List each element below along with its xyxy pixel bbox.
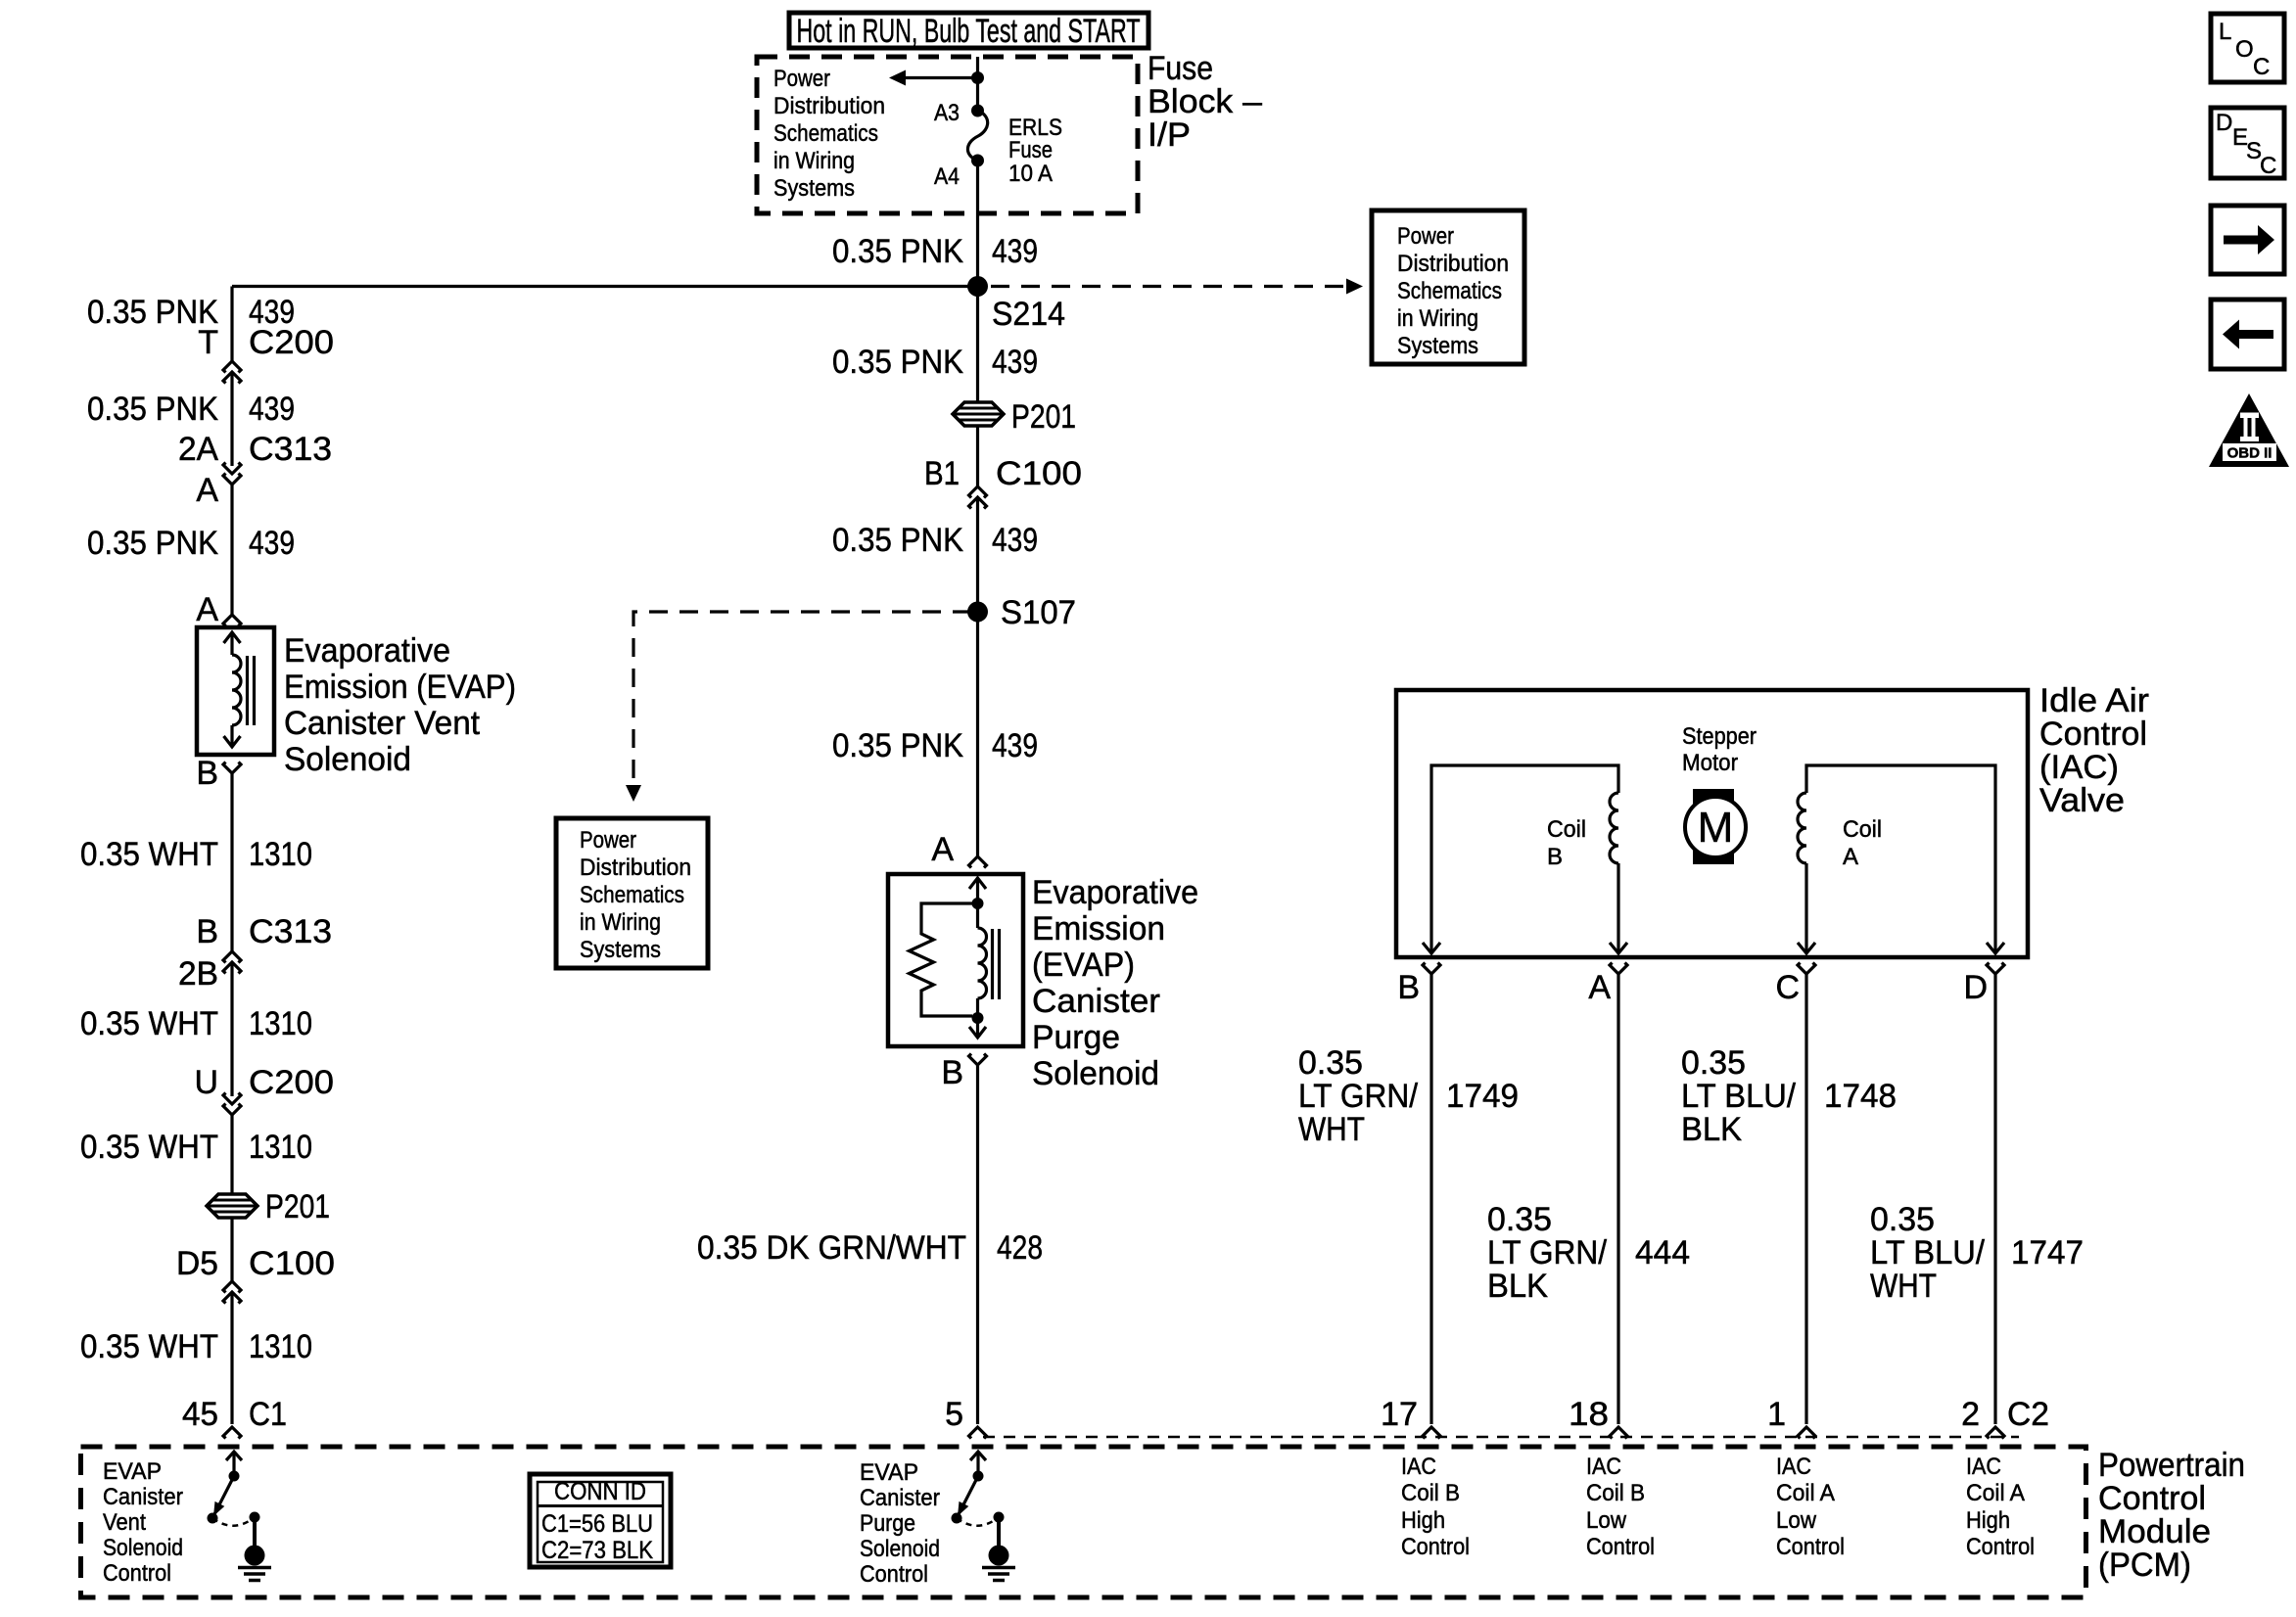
wire 1310 C100 to PCM pin 45 <box>230 1292 233 1424</box>
svg-text:P201: P201 <box>265 1188 330 1225</box>
svg-text:LT BLU/: LT BLU/ <box>1870 1234 1986 1271</box>
svg-text:Systems: Systems <box>580 937 661 963</box>
vent solenoid internal arrow up <box>224 632 241 643</box>
pin A chevron (purge solenoid) <box>969 856 987 868</box>
wire S214 branch horizontal to left <box>232 285 978 288</box>
svg-text:Purge: Purge <box>1032 1019 1120 1056</box>
svg-text:B: B <box>941 1054 963 1091</box>
switch vent solenoid driver arrow up <box>232 1452 235 1476</box>
fuse block I/P dashed box <box>757 57 1138 213</box>
wire 1310 vent solenoid to C313 <box>230 773 233 951</box>
grommet P201 (middle) <box>953 402 1004 426</box>
switch purge dashed arc <box>957 1517 999 1526</box>
svg-text:B: B <box>196 755 218 792</box>
node purge bottom junction <box>972 1012 984 1024</box>
svg-text:Distribution: Distribution <box>580 855 691 881</box>
svg-text:Fuse: Fuse <box>1008 137 1053 163</box>
connector C100 symbol (middle) <box>969 486 987 498</box>
wire 1310 C313 to C200 <box>230 962 233 1096</box>
svg-text:A3: A3 <box>934 100 960 126</box>
svg-text:C200: C200 <box>249 324 334 361</box>
svg-text:18: 18 <box>1569 1396 1609 1433</box>
wire 1748 IAC C to PCM 1 <box>1804 974 1807 1424</box>
svg-text:Control: Control <box>2039 716 2147 753</box>
wire 439 C313 to vent solenoid <box>230 485 233 615</box>
svg-text:0.35 WHT: 0.35 WHT <box>80 1005 218 1042</box>
ground symbol (vent) <box>238 1566 271 1570</box>
IAC arrow down wire C <box>1798 943 1815 953</box>
switch purge fixed contact dot <box>994 1512 1005 1523</box>
svg-text:(EVAP): (EVAP) <box>1032 947 1135 984</box>
svg-text:Solenoid: Solenoid <box>860 1536 940 1562</box>
svg-text:Schematics: Schematics <box>580 882 684 908</box>
node junction at fuse feed <box>971 71 984 84</box>
svg-text:Evaporative: Evaporative <box>1032 874 1198 911</box>
svg-text:0.35 PNK: 0.35 PNK <box>87 391 218 428</box>
svg-text:0.35 PNK: 0.35 PNK <box>832 522 963 559</box>
svg-text:1749: 1749 <box>1446 1078 1519 1115</box>
svg-text:Purge: Purge <box>860 1510 915 1537</box>
svg-text:M: M <box>1698 804 1734 852</box>
svg-text:Schematics: Schematics <box>1397 278 1502 304</box>
svg-text:C1: C1 <box>249 1396 287 1433</box>
svg-text:C2: C2 <box>2007 1396 2049 1433</box>
svg-text:B: B <box>1547 844 1563 870</box>
IAC arrow down wire B <box>1423 943 1440 953</box>
connector C200 symbol <box>223 361 241 373</box>
pin D chevron (IAC) <box>1987 963 2004 975</box>
svg-text:0.35: 0.35 <box>1298 1044 1363 1082</box>
icon LOC box <box>2211 14 2284 82</box>
wire IAC coil A loop <box>1806 765 1995 953</box>
wire 444 IAC A to PCM 18 <box>1617 974 1619 1424</box>
svg-text:OBD II: OBD II <box>2227 445 2273 462</box>
svg-text:439: 439 <box>992 233 1038 270</box>
svg-text:Idle Air: Idle Air <box>2039 682 2149 719</box>
node S107 <box>967 602 988 623</box>
svg-text:A: A <box>196 472 218 509</box>
svg-text:0.35 PNK: 0.35 PNK <box>832 727 963 764</box>
connector C313 symbol (up) <box>223 951 241 963</box>
pin A chevron (vent solenoid) <box>223 615 241 626</box>
svg-text:B: B <box>1397 969 1420 1006</box>
svg-text:C: C <box>2253 54 2270 80</box>
vent solenoid internal arrow down <box>230 725 233 747</box>
svg-text:C: C <box>2260 153 2276 179</box>
svg-text:LT GRN/: LT GRN/ <box>1298 1078 1419 1115</box>
svg-text:BLK: BLK <box>1681 1111 1742 1148</box>
pin 45 chevron into PCM <box>223 1427 241 1439</box>
svg-text:Control: Control <box>103 1560 171 1587</box>
svg-text:0.35: 0.35 <box>1870 1201 1935 1238</box>
wire left branch down to C200 <box>230 287 233 362</box>
ground stem (purge) <box>997 1517 1001 1548</box>
svg-text:439: 439 <box>249 525 295 562</box>
svg-text:IAC: IAC <box>1776 1454 1811 1480</box>
wire 439 from fuse to S214 <box>976 161 979 402</box>
svg-text:0.35 PNK: 0.35 PNK <box>832 344 963 381</box>
svg-text:Coil: Coil <box>1547 816 1586 843</box>
svg-text:WHT: WHT <box>1298 1111 1365 1148</box>
svg-text:D5: D5 <box>176 1245 218 1282</box>
svg-text:B1: B1 <box>924 455 960 492</box>
icon arrow right box <box>2211 206 2284 274</box>
svg-text:Vent: Vent <box>103 1509 146 1536</box>
svg-text:P201: P201 <box>1011 398 1076 436</box>
wire fine dashed connector face line <box>983 1436 2019 1439</box>
svg-text:1747: 1747 <box>2011 1234 2084 1271</box>
svg-text:IAC: IAC <box>1586 1454 1621 1480</box>
svg-text:L: L <box>2219 19 2231 45</box>
pin A chevron (IAC) <box>1610 963 1627 975</box>
wire 439 S107 to purge solenoid <box>976 612 979 856</box>
svg-text:0.35: 0.35 <box>1487 1201 1552 1238</box>
svg-text:Solenoid: Solenoid <box>103 1535 183 1561</box>
node A4 terminal dot <box>971 155 984 167</box>
svg-text:0.35: 0.35 <box>1681 1044 1746 1082</box>
node A3 terminal dot <box>971 105 984 117</box>
switch vent dashed arc <box>212 1517 255 1526</box>
wire dashed S214 to power distribution box <box>991 285 1347 288</box>
svg-text:Control: Control <box>2098 1480 2206 1517</box>
svg-text:A: A <box>1843 844 1858 870</box>
connector C200 symbol (down) <box>223 1093 241 1105</box>
svg-text:O: O <box>2235 36 2254 63</box>
svg-text:Valve: Valve <box>2039 782 2125 819</box>
svg-text:C313: C313 <box>249 913 332 950</box>
svg-text:Fuse: Fuse <box>1148 50 1213 87</box>
switch purge solenoid driver arrow up <box>976 1452 979 1476</box>
IAC arrow down wire D <box>1987 943 2004 953</box>
svg-text:High: High <box>1966 1507 2010 1534</box>
svg-text:Control: Control <box>1401 1534 1470 1560</box>
svg-text:in Wiring: in Wiring <box>773 148 855 174</box>
fuse F ERLS 10A element <box>967 111 987 161</box>
svg-text:WHT: WHT <box>1870 1268 1937 1305</box>
svg-text:Coil A: Coil A <box>1966 1480 2025 1506</box>
svg-text:45: 45 <box>182 1396 218 1433</box>
pin B chevron (vent solenoid) <box>223 762 241 774</box>
pin C chevron (IAC) <box>1798 963 1815 975</box>
svg-text:C: C <box>1775 969 1800 1006</box>
svg-text:in Wiring: in Wiring <box>1397 305 1478 332</box>
wire 439 C100 to S107 <box>976 497 979 612</box>
connector C313 symbol (down) <box>223 463 241 475</box>
svg-text:BLK: BLK <box>1487 1268 1548 1305</box>
svg-text:2B: 2B <box>178 955 218 993</box>
svg-text:1310: 1310 <box>249 836 312 873</box>
IAC arrow down wire A <box>1610 943 1627 953</box>
svg-text:Schematics: Schematics <box>773 120 878 147</box>
svg-text:Module: Module <box>2098 1513 2211 1550</box>
svg-text:S107: S107 <box>1001 594 1076 631</box>
svg-text:0.35 DK GRN/WHT: 0.35 DK GRN/WHT <box>697 1229 966 1267</box>
svg-text:Stepper: Stepper <box>1682 723 1757 750</box>
svg-text:439: 439 <box>992 522 1038 559</box>
component IAC valve box <box>1396 690 2028 957</box>
switch purge pivot dot <box>973 1471 984 1482</box>
svg-text:2: 2 <box>1961 1396 1980 1433</box>
svg-text:Solenoid: Solenoid <box>1032 1055 1159 1092</box>
svg-text:I/P: I/P <box>1148 116 1191 154</box>
svg-text:A4: A4 <box>934 163 960 190</box>
svg-text:1310: 1310 <box>249 1129 312 1166</box>
svg-text:0.35 WHT: 0.35 WHT <box>80 1129 218 1166</box>
svg-text:Control: Control <box>860 1561 928 1588</box>
coil A winding <box>1798 793 1806 863</box>
svg-text:U: U <box>194 1064 218 1101</box>
wire 1747 IAC D to PCM 2 <box>1993 974 1996 1424</box>
svg-text:Emission (EVAP): Emission (EVAP) <box>284 669 516 706</box>
svg-text:IAC: IAC <box>1966 1454 2001 1480</box>
svg-text:Motor: Motor <box>1682 750 1738 776</box>
svg-text:A: A <box>931 831 954 868</box>
wire 428 purge solenoid to PCM pin 5 <box>976 1065 979 1424</box>
svg-text:5: 5 <box>945 1396 963 1433</box>
svg-text:S214: S214 <box>992 296 1065 333</box>
component EVAP canister vent solenoid box <box>197 627 274 755</box>
svg-text:CONN ID: CONN ID <box>554 1478 646 1505</box>
svg-text:Canister: Canister <box>103 1484 183 1510</box>
vent solenoid coil L <box>232 655 241 725</box>
svg-text:C100: C100 <box>996 455 1082 492</box>
wire fuse feed vertical <box>976 57 979 111</box>
svg-text:Control: Control <box>1586 1534 1655 1560</box>
svg-text:Control: Control <box>1966 1534 2035 1560</box>
purge solenoid core bars <box>991 929 994 999</box>
resistor R (purge solenoid) <box>910 903 973 1016</box>
motor M stepper <box>1693 789 1734 864</box>
svg-text:A: A <box>196 591 218 628</box>
switch purge blade end dot <box>952 1513 962 1524</box>
svg-text:Canister Vent: Canister Vent <box>284 705 481 742</box>
svg-text:Coil: Coil <box>1843 816 1882 843</box>
svg-text:EVAP: EVAP <box>860 1459 918 1486</box>
svg-text:EVAP: EVAP <box>103 1458 162 1485</box>
svg-text:A: A <box>1588 969 1611 1006</box>
svg-text:Power: Power <box>773 66 830 92</box>
wire 439 C200 to C313 <box>230 372 233 466</box>
coil B winding <box>1610 793 1618 863</box>
svg-text:Solenoid: Solenoid <box>284 741 411 778</box>
svg-text:Coil A: Coil A <box>1776 1480 1835 1506</box>
svg-text:IAC: IAC <box>1401 1454 1436 1480</box>
svg-text:LT GRN/: LT GRN/ <box>1487 1234 1608 1271</box>
svg-text:2A: 2A <box>178 431 218 468</box>
svg-text:Power: Power <box>1397 223 1454 250</box>
node purge top junction <box>972 898 984 909</box>
header box "Hot in RUN, Bulb Test and START" <box>789 13 1148 48</box>
component EVAP canister purge solenoid box <box>888 874 1023 1046</box>
svg-text:B: B <box>196 913 218 950</box>
svg-text:Coil B: Coil B <box>1586 1480 1645 1506</box>
svg-text:C200: C200 <box>249 1064 334 1101</box>
switch vent blade <box>212 1476 234 1518</box>
svg-text:439: 439 <box>992 344 1038 381</box>
svg-text:(IAC): (IAC) <box>2039 749 2119 786</box>
svg-text:Canister: Canister <box>1032 983 1160 1020</box>
svg-text:Hot in RUN, Bulb Test and STAR: Hot in RUN, Bulb Test and START <box>797 13 1141 50</box>
svg-text:D: D <box>2216 110 2232 136</box>
ground stem (vent) <box>253 1517 257 1548</box>
svg-text:17: 17 <box>1381 1396 1418 1433</box>
wire IAC coil B loop <box>1431 765 1618 953</box>
wire arrow to power distribution (left) <box>903 76 978 79</box>
svg-text:10 A: 10 A <box>1008 161 1053 187</box>
switch vent blade end dot <box>208 1513 218 1524</box>
svg-text:Low: Low <box>1586 1507 1627 1534</box>
svg-text:0.35 WHT: 0.35 WHT <box>80 836 218 873</box>
svg-text:C1=56 BLU: C1=56 BLU <box>541 1510 653 1538</box>
svg-text:428: 428 <box>997 1229 1043 1267</box>
svg-text:C2=73 BLK: C2=73 BLK <box>541 1537 653 1564</box>
grommet P201 (left) <box>207 1194 258 1218</box>
icon OBD II triangle <box>2209 393 2289 467</box>
PCM dashed box <box>81 1447 2086 1597</box>
switch purge blade <box>957 1476 978 1518</box>
svg-text:(PCM): (PCM) <box>2098 1547 2191 1584</box>
pin 5 chevron into PCM <box>969 1427 987 1439</box>
wire P201 to C100 (middle) <box>976 426 979 486</box>
svg-text:Systems: Systems <box>1397 333 1478 359</box>
svg-text:1310: 1310 <box>249 1328 312 1365</box>
switch vent pivot dot <box>229 1471 240 1482</box>
switch vent fixed contact dot <box>250 1512 260 1523</box>
icon arrow left box <box>2211 300 2284 369</box>
svg-text:Control: Control <box>1776 1534 1845 1560</box>
wire dashed S107 to power distribution box (left) <box>633 612 971 784</box>
svg-text:0.35 WHT: 0.35 WHT <box>80 1328 218 1365</box>
svg-text:Distribution: Distribution <box>1397 251 1509 277</box>
node S214 <box>967 276 988 297</box>
svg-text:Block –: Block – <box>1148 83 1262 120</box>
purge solenoid coil L <box>976 903 979 928</box>
box CONN ID <box>530 1474 671 1567</box>
svg-text:Power: Power <box>580 827 636 854</box>
box power distribution schematics (left) <box>556 818 708 968</box>
vent solenoid core bars <box>246 656 249 725</box>
svg-text:in Wiring: in Wiring <box>580 909 661 936</box>
svg-text:Powertrain: Powertrain <box>2098 1447 2245 1484</box>
icon DESC box <box>2211 108 2284 178</box>
svg-text:Systems: Systems <box>773 175 855 202</box>
svg-text:T: T <box>198 324 218 361</box>
svg-text:1310: 1310 <box>249 1005 312 1042</box>
svg-text:Evaporative: Evaporative <box>284 632 450 670</box>
wire P201 to C100 <box>230 1218 233 1281</box>
ground symbol (purge) <box>982 1566 1015 1570</box>
svg-text:0.35 PNK: 0.35 PNK <box>832 233 963 270</box>
svg-text:439: 439 <box>249 391 295 428</box>
connector C100 symbol (left, up) <box>223 1281 241 1293</box>
svg-text:Emission: Emission <box>1032 910 1165 947</box>
svg-text:C313: C313 <box>249 431 332 468</box>
svg-text:Distribution: Distribution <box>773 93 885 119</box>
svg-text:D: D <box>1963 969 1988 1006</box>
pin B chevron (purge solenoid) <box>969 1054 987 1066</box>
svg-text:Coil B: Coil B <box>1401 1480 1460 1506</box>
svg-text:1: 1 <box>1767 1396 1786 1433</box>
svg-text:444: 444 <box>1635 1234 1690 1271</box>
svg-text:C100: C100 <box>249 1245 335 1282</box>
svg-text:0.35 PNK: 0.35 PNK <box>87 525 218 562</box>
pin B chevron (IAC) <box>1423 963 1440 975</box>
wire 1749 IAC B to PCM 17 <box>1429 974 1432 1424</box>
svg-text:High: High <box>1401 1507 1445 1534</box>
svg-text:Canister: Canister <box>860 1485 940 1511</box>
box power distribution schematics (right) <box>1372 210 1524 364</box>
svg-text:439: 439 <box>992 727 1038 764</box>
wire 1310 C200 to P201 <box>230 1115 233 1194</box>
svg-text:Low: Low <box>1776 1507 1817 1534</box>
svg-text:1748: 1748 <box>1824 1078 1897 1115</box>
svg-text:LT BLU/: LT BLU/ <box>1681 1078 1797 1115</box>
purge solenoid internal arrow down <box>976 1018 979 1038</box>
purge solenoid internal arrow up <box>969 878 986 889</box>
